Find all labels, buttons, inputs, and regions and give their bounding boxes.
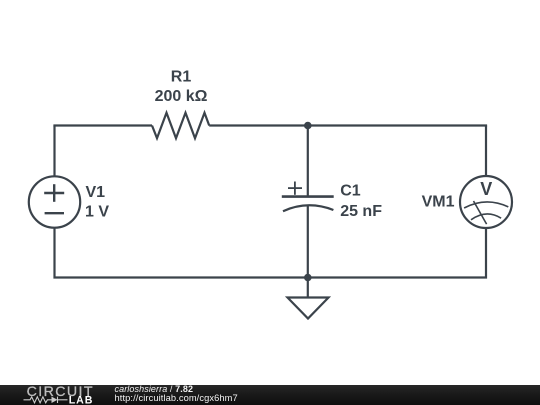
svg-text:R1: R1 [171,69,192,86]
svg-text:LAB: LAB [69,394,94,405]
ground [288,298,329,319]
svg-text:V: V [480,179,492,199]
CircuitLab logo [0,385,110,405]
node junction top [304,122,312,130]
wire voltmeter top [485,126,487,177]
footer text line 1 [115,384,194,394]
footer bar [0,385,540,405]
wire capacitor bottom [307,206,309,278]
node junction bottom [304,274,312,282]
svg-text:200 kΩ: 200 kΩ [155,88,208,105]
wire capacitor top [307,126,309,197]
svg-text:1 V: 1 V [85,203,109,220]
voltage source V1 [29,176,80,227]
wire top-left horizontal [53,124,152,126]
wire bottom right [308,228,487,278]
wire bottom left [55,228,308,278]
voltmeter VM1 [460,176,512,228]
resistor R1 [152,113,209,138]
capacitor C1 [282,182,334,212]
svg-text:V1: V1 [86,184,106,201]
wire top-left vertical [53,126,55,177]
svg-text:C1: C1 [340,183,361,200]
wire top right [308,124,487,126]
svg-text:VM1: VM1 [422,194,455,211]
wire top middle [209,124,308,126]
svg-text:25 nF: 25 nF [340,203,382,220]
ground stem wire [307,278,309,298]
footer text line 2 [115,393,238,403]
